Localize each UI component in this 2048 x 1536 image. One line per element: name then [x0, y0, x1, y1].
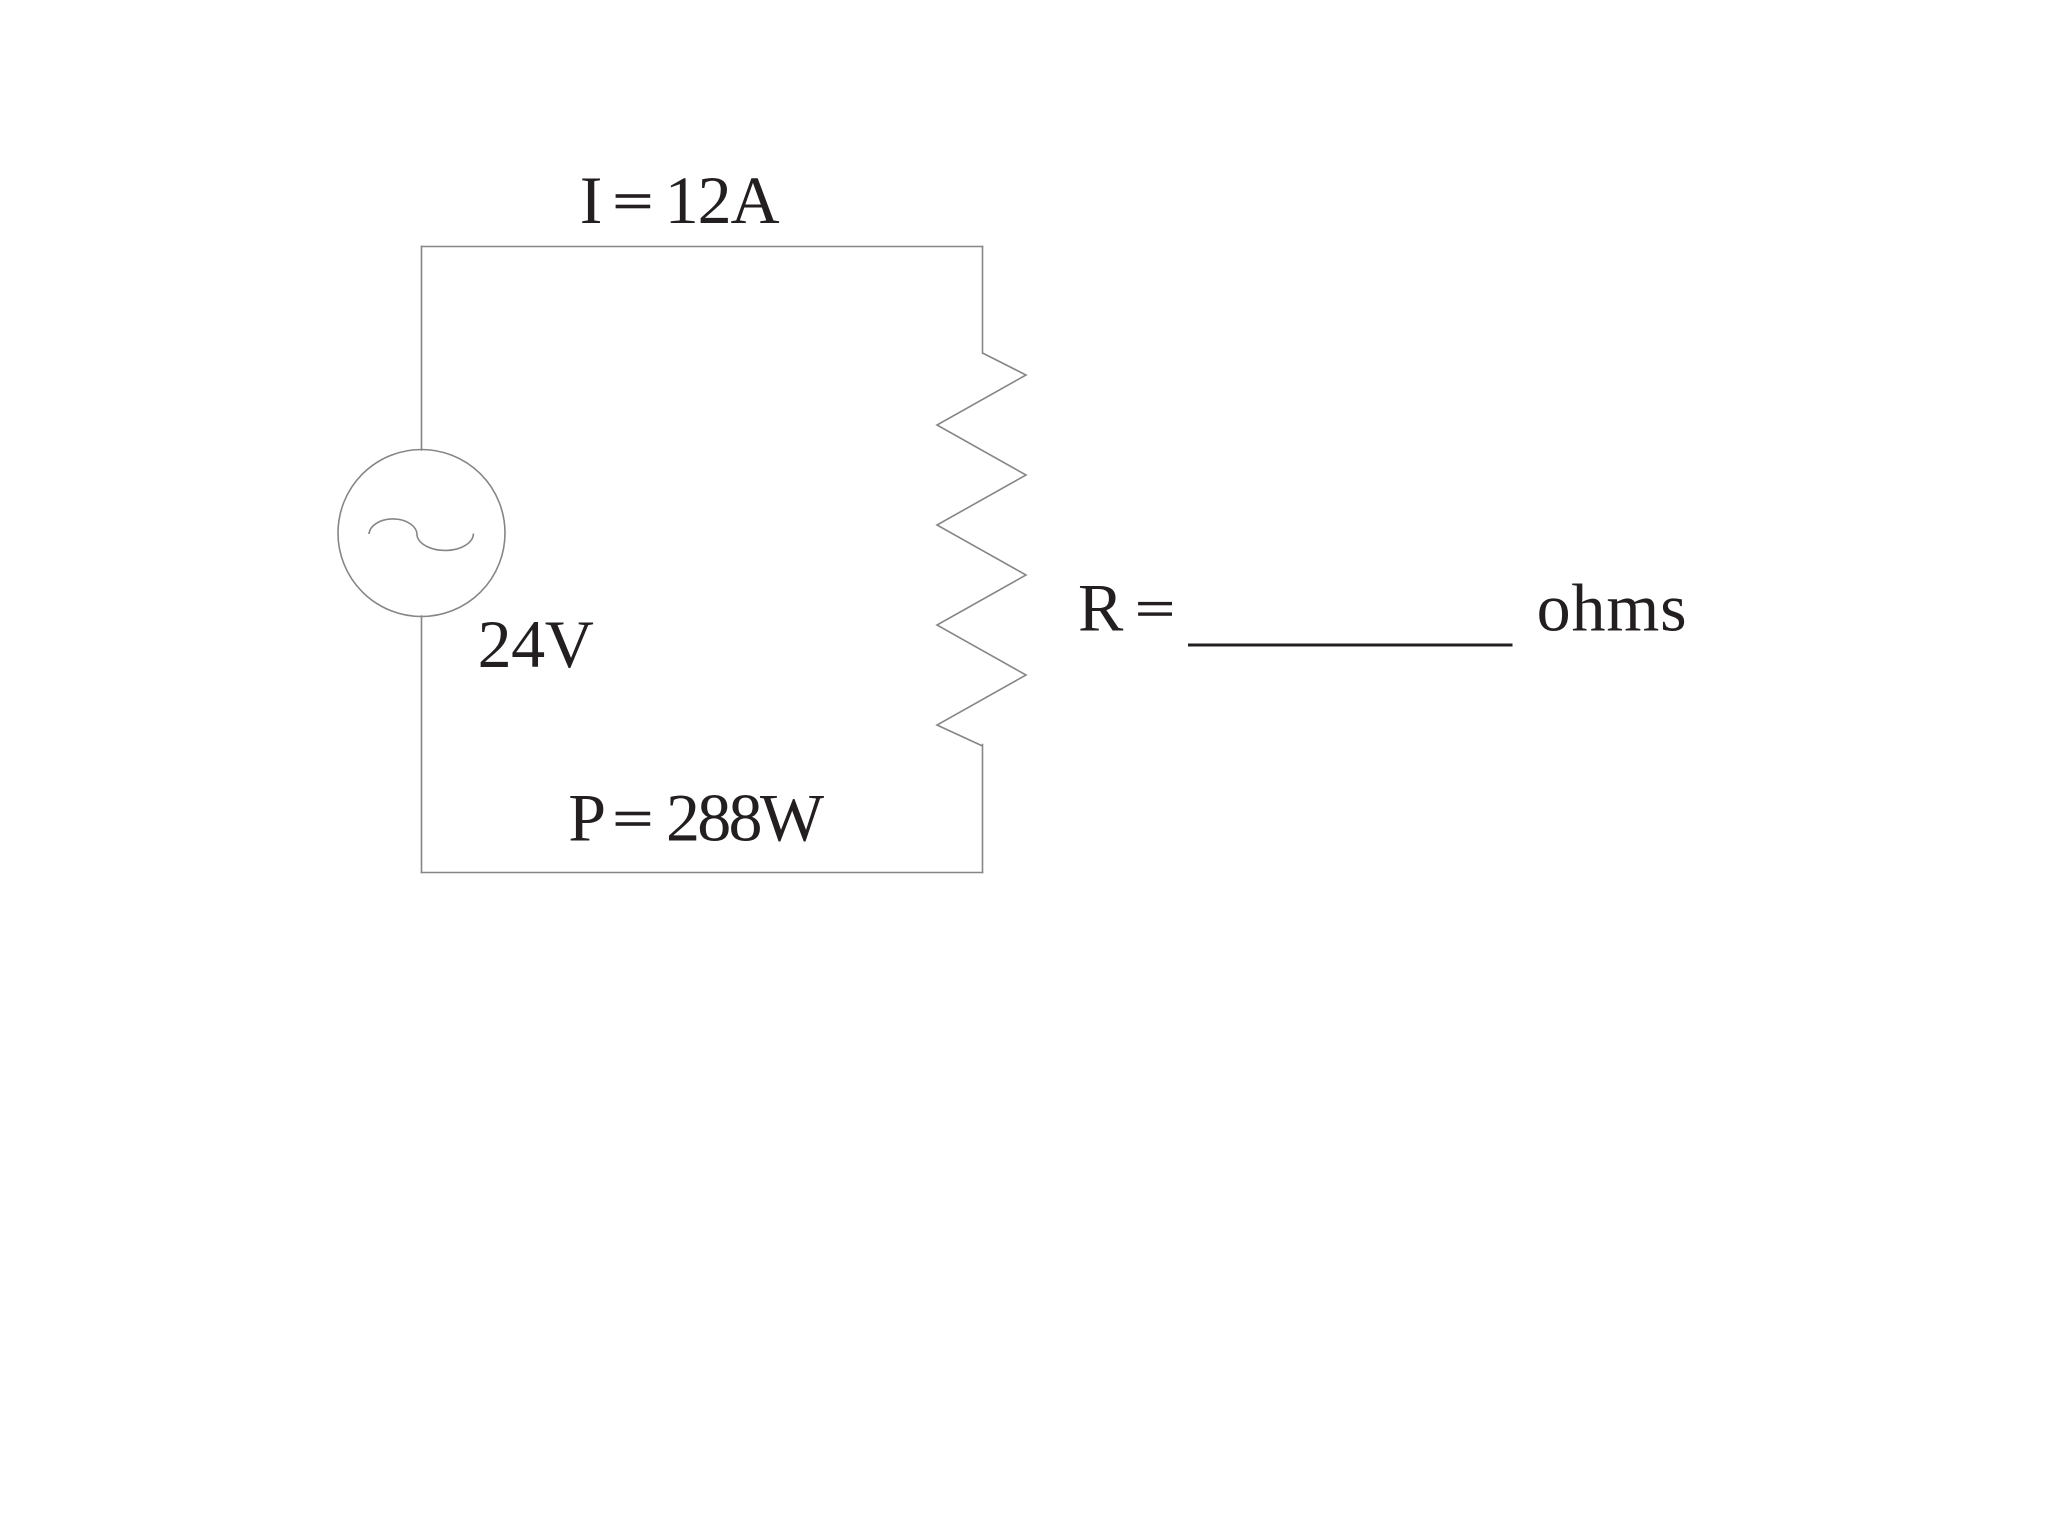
- svg-text:288W: 288W: [666, 780, 825, 856]
- equals sign of R label: [1138, 602, 1172, 605]
- equals sign of P label: [616, 812, 651, 816]
- wire right upper (node B down to resistor top): [982, 247, 984, 354]
- svg-text:24V: 24V: [478, 606, 594, 682]
- wire right lower (resistor bottom to node C): [982, 745, 984, 873]
- wire left lower (source bottom down to node D): [421, 616, 423, 873]
- AC source V1 sine symbol: [369, 519, 473, 551]
- equals sign of I label: [616, 194, 651, 198]
- svg-text:P: P: [568, 780, 606, 856]
- wire left upper (node A down to source top): [421, 247, 423, 451]
- AC source V1 circle: [338, 450, 505, 617]
- svg-text:12A: 12A: [665, 162, 780, 238]
- wire bottom (node C to node D): [422, 872, 983, 874]
- answer blank line: [1188, 644, 1513, 647]
- wire top (node A to node B): [422, 246, 983, 248]
- svg-text:R: R: [1078, 570, 1124, 646]
- svg-text:I: I: [580, 162, 603, 238]
- resistor R (zigzag): [937, 353, 1026, 746]
- svg-text:ohms: ohms: [1537, 570, 1687, 646]
